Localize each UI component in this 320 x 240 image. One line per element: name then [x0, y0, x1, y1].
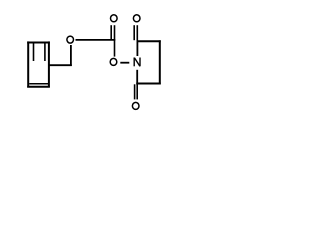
benzene ring right edge [48, 41, 50, 87]
succinimide top carbonyl double bond main line [136, 25, 138, 42]
succinimide ring top edge [137, 40, 161, 42]
succinimide top carbonyl double bond second line [133, 25, 135, 40]
succinimide bottom carbonyl double bond main line [136, 84, 138, 100]
bond O-N horizontal [120, 62, 129, 64]
benzene ring left edge [27, 41, 29, 87]
succinimide bottom carbonyl double bond second line [134, 84, 136, 99]
carbonate C=O double bond second line [110, 25, 112, 39]
bond ring-CH2 horizontal [48, 64, 72, 66]
succinimide bond C(top)-N [136, 41, 138, 56]
succinimide bond N-C(bottom) [136, 70, 138, 85]
benzene ring top edge [27, 42, 50, 44]
bond CH2-O vertical [70, 45, 72, 66]
carbonate C=O double bond main line (continues down to ester O) [114, 25, 116, 56]
benzene inner double-bond line bottom [29, 83, 48, 85]
benzene inner double-bond line left [33, 43, 35, 61]
succinimide ring bottom edge [136, 83, 160, 85]
benzene ring bottom edge [27, 86, 50, 88]
atom O ether [67, 36, 74, 43]
benzene inner double-bond line right [44, 43, 46, 61]
atom O carbonyl bottom [132, 102, 139, 109]
atom N [134, 58, 140, 67]
bond O-C carbonate horizontal [76, 39, 116, 41]
atom O carbonyl top-right [133, 15, 140, 22]
succinimide ring right edge [159, 40, 161, 84]
atom O ester [110, 58, 117, 65]
atom O carbonyl top-left [111, 15, 118, 22]
